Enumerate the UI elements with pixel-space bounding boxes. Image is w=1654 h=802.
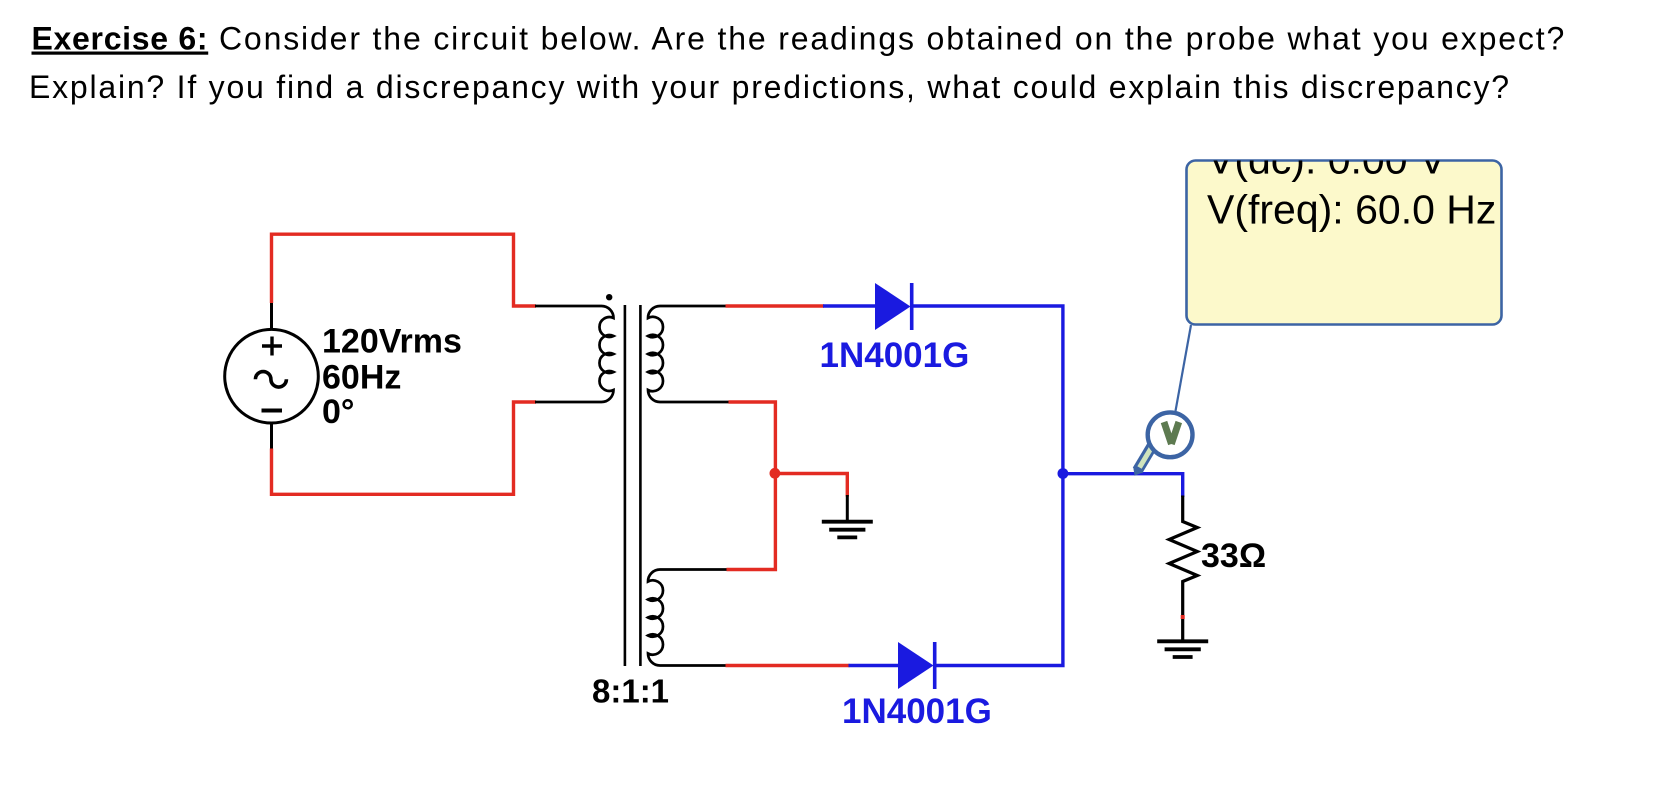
resistor R1 (1169, 496, 1197, 641)
output node junction (1058, 468, 1069, 479)
ac voltage source V1 (225, 329, 319, 423)
svg-text:V(freq): 60.0 Hz: V(freq): 60.0 Hz (1207, 187, 1496, 233)
svg-text:8:1:1: 8:1:1 (592, 673, 669, 710)
wire (red loop: source top to transformer primary top) (272, 234, 537, 306)
svg-text:1N4001G: 1N4001G (820, 336, 970, 375)
svg-text:Explain? If you find a discrep: Explain? If you find a discrepancy with … (29, 69, 1511, 105)
wire (source top stub, black) (270, 302, 273, 330)
ground (load) (1157, 641, 1208, 657)
diode D1 (875, 283, 911, 330)
leader line from probe to tooltip (1176, 325, 1192, 411)
tooltip box (1187, 161, 1502, 325)
ground (center tap) (822, 522, 873, 538)
transformer core (625, 305, 641, 666)
center tap junction (770, 468, 781, 479)
svg-text:120Vrms: 120Vrms (322, 323, 462, 361)
wire (red, secondary 1 top lead to diode D1) (726, 304, 825, 307)
wire (red, secondary 2 bottom lead to diode D2) (726, 664, 850, 667)
wire (source bottom stub, black) (270, 423, 273, 451)
wire (black stub to ground) (846, 495, 849, 521)
wire (blue, into diode D1) (823, 304, 876, 307)
transformer secondary winding 1 (648, 306, 730, 402)
transformer primary winding (535, 306, 614, 402)
tooltip text (1207, 137, 1496, 233)
transformer phase dot (606, 294, 612, 300)
svg-text:Exercise 6: Consider the circu: Exercise 6: Consider the circuit below. … (32, 21, 1567, 57)
wire (red loop: source bottom to transformer primary bottom) (272, 402, 537, 494)
svg-text:60Hz: 60Hz (322, 359, 401, 397)
svg-text:0°: 0° (322, 393, 355, 431)
wire (red, center tap branch to ground) (775, 474, 847, 497)
wire (blue, into diode D2) (849, 664, 900, 667)
voltage probe (1133, 412, 1192, 475)
svg-text:1N4001G: 1N4001G (842, 692, 992, 731)
node dot (resistor bottom, red) (1181, 615, 1185, 619)
wire (blue, output node to resistor) (1063, 474, 1183, 497)
wire (blue, D1 cathode to output node, down to D2 cathode) (912, 306, 1063, 666)
transformer secondary winding 2 (648, 570, 728, 666)
wire (red, center tap: secondary1 bottom to secondary2 top) (727, 402, 776, 570)
svg-text:33Ω: 33Ω (1201, 537, 1266, 575)
diode D2 (898, 642, 934, 689)
